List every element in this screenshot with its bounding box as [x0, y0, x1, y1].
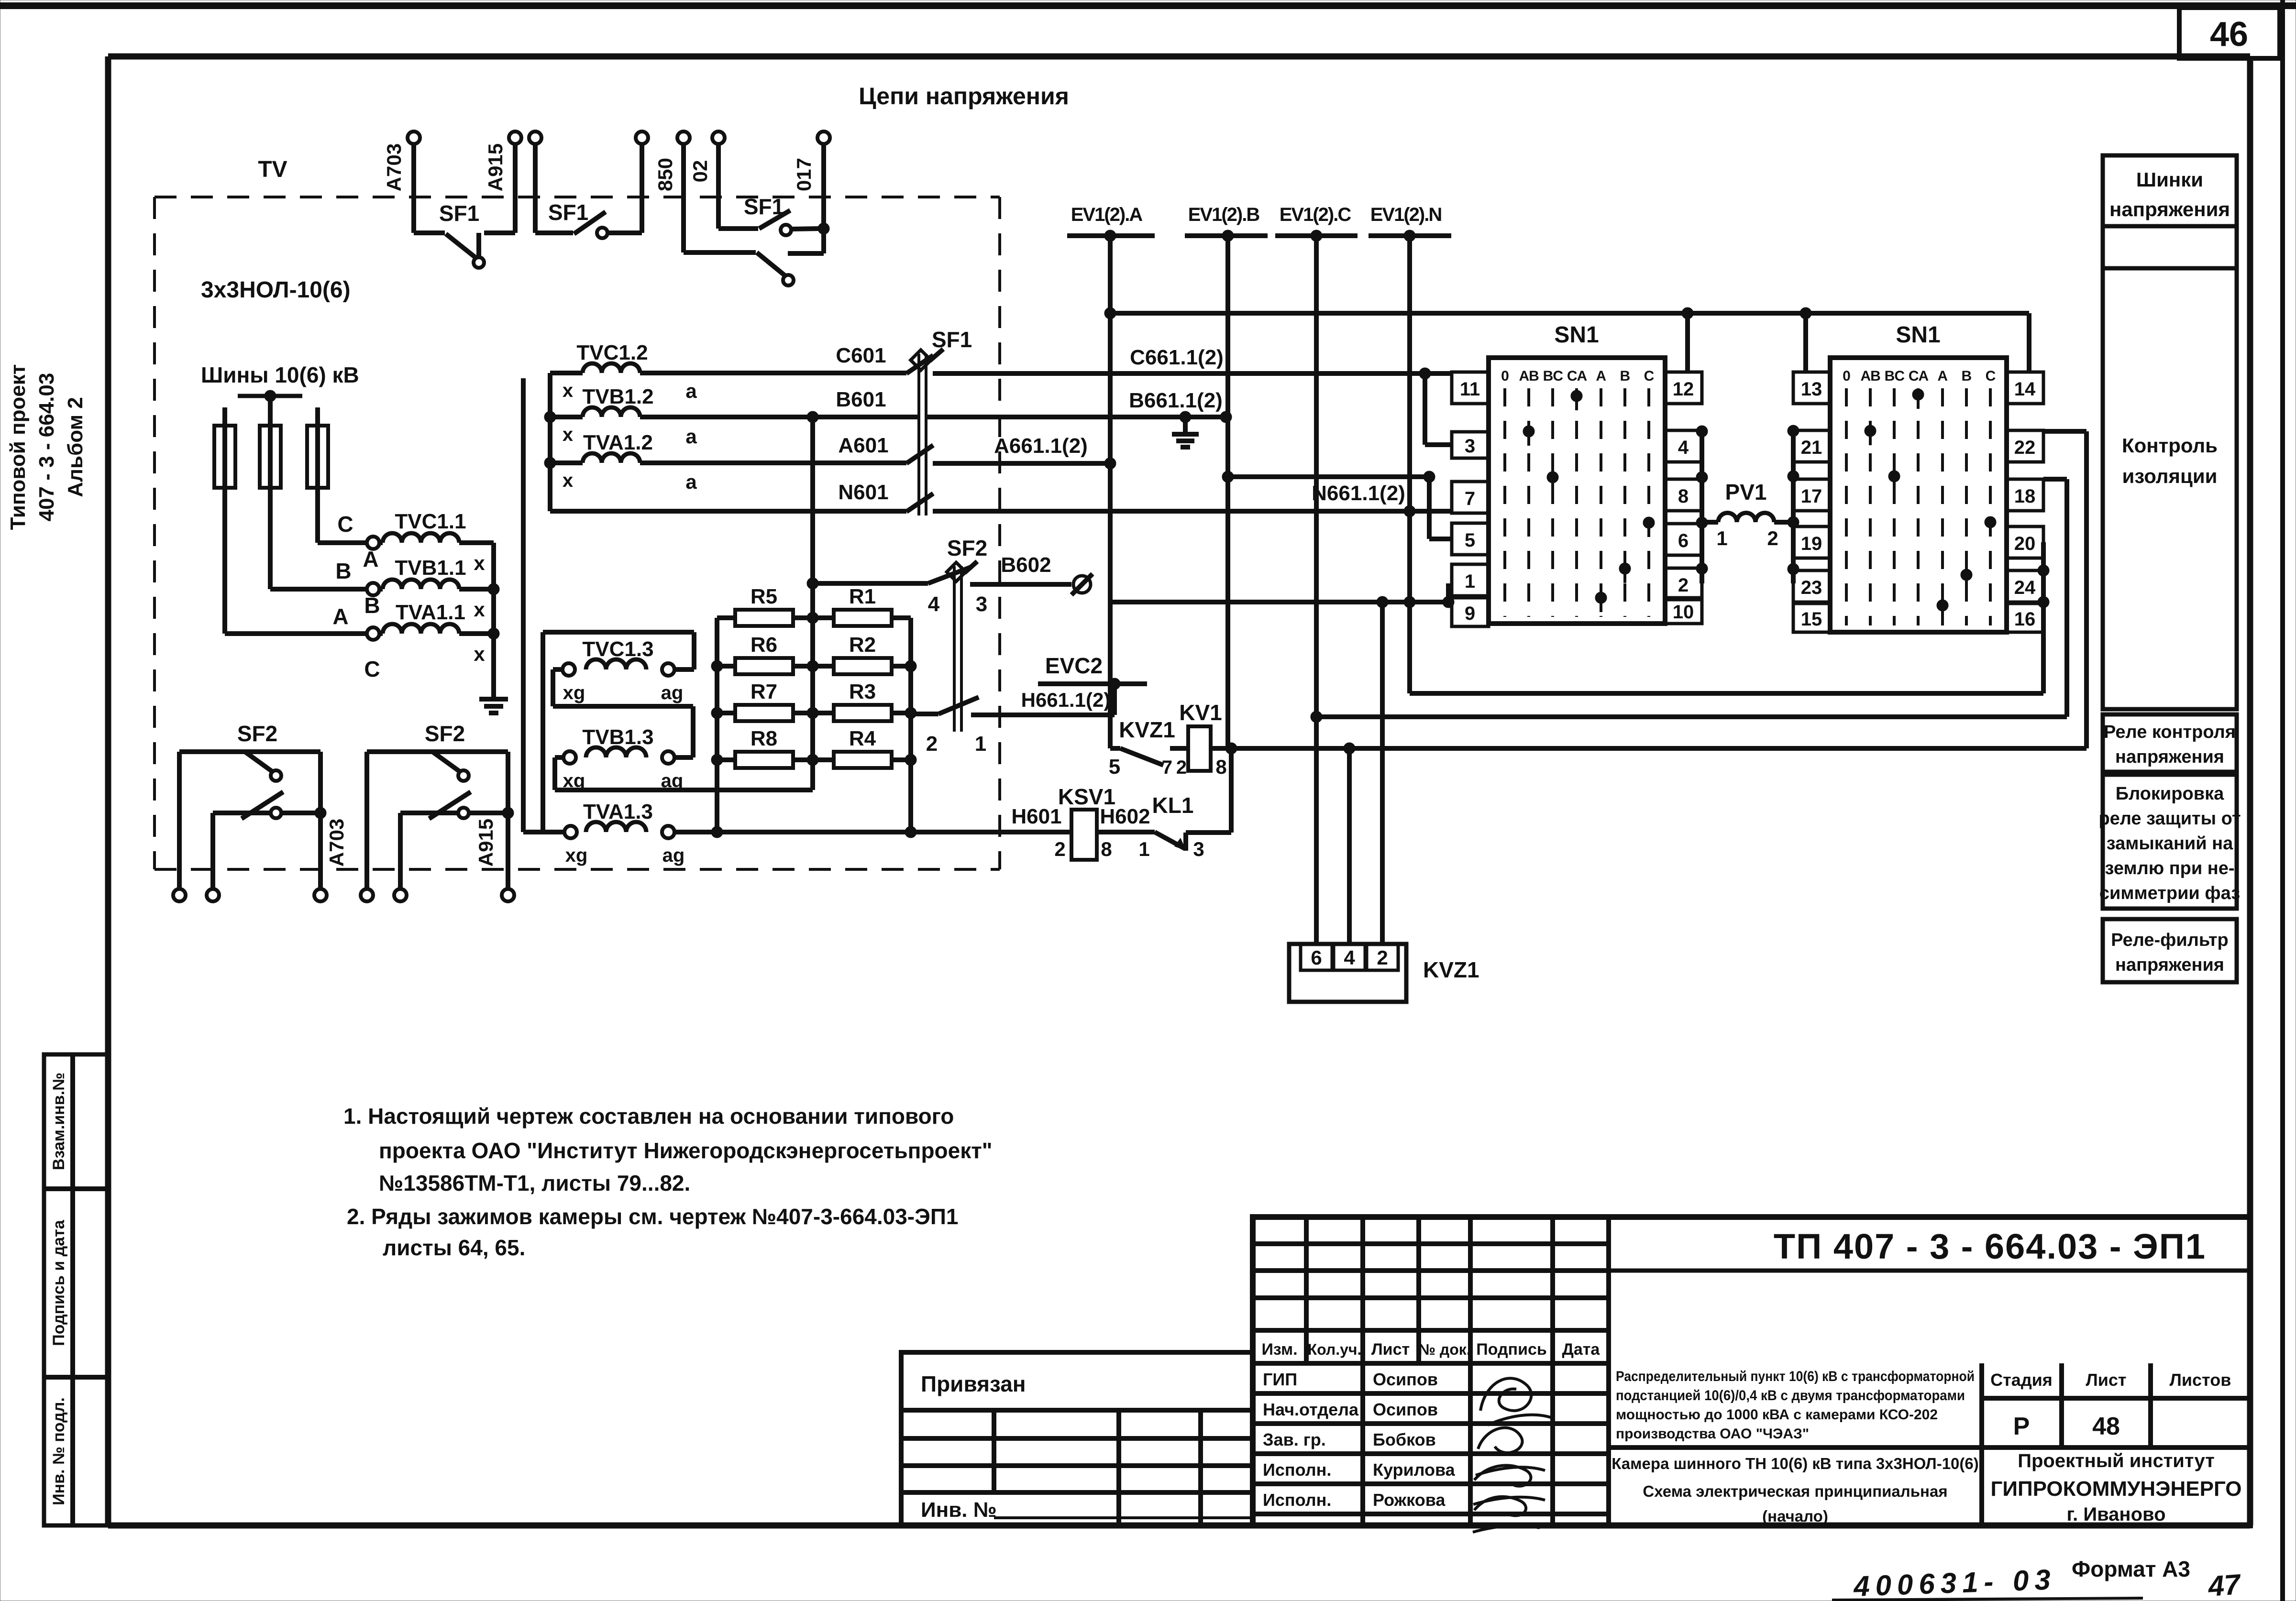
- svg-text:9: 9: [1465, 603, 1475, 624]
- winding TVA1.2: [550, 431, 653, 491]
- SN1 pin box 14: [2007, 372, 2043, 404]
- svg-text:A: A: [363, 547, 378, 571]
- wire to pin 12: [1685, 313, 1690, 372]
- wire EV1.B vertical: [1222, 236, 1234, 748]
- svg-text:Камера шинного ТН 10(6) кВ тип: Камера шинного ТН 10(6) кВ типа 3х3НОЛ-1…: [1612, 1455, 1979, 1472]
- winding TVC1.1: [318, 510, 494, 549]
- wire KVZ1 pin4 vertical: [1347, 748, 1352, 944]
- svg-text:A661.1(2): A661.1(2): [994, 434, 1088, 458]
- svg-text:C: C: [337, 512, 353, 537]
- SN1 pin box 11: [1452, 372, 1489, 404]
- signatures: [1473, 1378, 1552, 1532]
- svg-text:N601: N601: [838, 481, 888, 504]
- svg-text:SF1: SF1: [744, 194, 784, 219]
- terminal box KVZ1: [1289, 944, 1406, 1002]
- svg-text:A915: A915: [484, 143, 507, 191]
- winding TVA1.3: [543, 632, 684, 866]
- resistor network right bus: [905, 618, 916, 838]
- right column box Контроль изоляции: [2103, 268, 2237, 709]
- resistor network left bus: [711, 618, 723, 838]
- SN1 pin box 13: [1793, 372, 1830, 404]
- SF1 blade A601: [906, 445, 933, 463]
- SN1 pin box 7: [1452, 482, 1489, 513]
- winding TVB1.3: [555, 706, 813, 791]
- svg-text:C: C: [1644, 368, 1654, 384]
- svg-text:TVA1.1: TVA1.1: [396, 601, 465, 624]
- title block outline: [1253, 1217, 2250, 1525]
- svg-text:Схема электрическая принципиал: Схема электрическая принципиальная: [1643, 1482, 1947, 1500]
- svg-text:Инв. № подл.: Инв. № подл.: [50, 1397, 68, 1505]
- svg-text:Листов: Листов: [2170, 1370, 2231, 1390]
- svg-text:R2: R2: [849, 633, 876, 657]
- svg-text:SF1: SF1: [548, 200, 588, 225]
- svg-text:TV: TV: [258, 157, 287, 182]
- svg-text:ag: ag: [661, 682, 684, 703]
- svg-text:5: 5: [1465, 530, 1475, 551]
- svg-text:B602: B602: [1001, 553, 1051, 577]
- svg-text:1. Настоящий чертеж составлен: 1. Настоящий чертеж составлен на основан…: [343, 1104, 954, 1129]
- svg-text:C: C: [364, 657, 380, 681]
- switch SF2 no.2: [361, 721, 514, 901]
- node EV1(2).B: [1185, 204, 1268, 241]
- fuse FU1 (phase A): [214, 407, 235, 634]
- svg-text:H661.1(2): H661.1(2): [1021, 689, 1111, 711]
- svg-text:400631- 03: 400631- 03: [1853, 1563, 2057, 1601]
- svg-text:6: 6: [1678, 530, 1689, 551]
- svg-text:R6: R6: [751, 633, 777, 657]
- svg-text:x: x: [474, 552, 485, 574]
- svg-text:SF1: SF1: [932, 327, 972, 352]
- SN1 pin box 20: [2007, 526, 2043, 558]
- SN1 pin box 5: [1452, 523, 1489, 555]
- svg-text:Контроль: Контроль: [2122, 434, 2218, 457]
- svg-text:10: 10: [1673, 602, 1694, 623]
- svg-text:TVA1.2: TVA1.2: [583, 431, 653, 454]
- svg-text:A601: A601: [838, 434, 888, 457]
- svg-text:H601: H601: [1011, 805, 1061, 828]
- svg-text:Взам.инв.№: Взам.инв.№: [50, 1073, 68, 1170]
- SN1 dashed contact columns: [1846, 388, 1990, 625]
- svg-text:Изм.: Изм.: [1261, 1340, 1297, 1359]
- wire KL1 to KV row: [1229, 748, 1234, 833]
- svg-text:KVZ1: KVZ1: [1423, 957, 1479, 982]
- svg-text:a: a: [685, 425, 697, 448]
- svg-text:Курилова: Курилова: [1373, 1460, 1456, 1480]
- svg-text:проекта ОАО "Институт Нижегоро: проекта ОАО "Институт Нижегородскэнергос…: [379, 1138, 993, 1163]
- svg-text:производства ОАО "ЧЭАЗ": производства ОАО "ЧЭАЗ": [1616, 1426, 1809, 1442]
- svg-text:C601: C601: [836, 344, 886, 367]
- SN1 contact position dots: [1523, 390, 1655, 612]
- resistor R3: [813, 680, 911, 721]
- svg-text:2: 2: [1054, 838, 1065, 860]
- switch SF1 no.1: [408, 132, 521, 268]
- svg-text:(начало): (начало): [1762, 1507, 1828, 1525]
- svg-text:№ док.: № док.: [1418, 1341, 1470, 1358]
- wire EV1.C vertical: [1311, 236, 1322, 944]
- svg-text:6: 6: [1311, 946, 1322, 969]
- svg-text:R1: R1: [849, 585, 876, 608]
- svg-text:симметрии фаз: симметрии фаз: [2099, 883, 2240, 903]
- wire KV row to pin 22: [2043, 431, 2086, 748]
- SN1 pin box 21: [1793, 430, 1830, 462]
- switch SN1 block outline: [1830, 322, 2007, 632]
- svg-text:Формат А3: Формат А3: [2072, 1557, 2190, 1581]
- SF1 blade N601: [906, 493, 933, 512]
- svg-text:TVA1.3: TVA1.3: [583, 800, 653, 823]
- switch SF2 no.1: [173, 721, 327, 901]
- svg-text:22: 22: [2014, 437, 2036, 458]
- svg-text:Инв. №: Инв. №: [921, 1498, 997, 1522]
- right column box Реле-фильтр напряжения: [2103, 919, 2237, 982]
- svg-text:H602: H602: [1100, 805, 1150, 828]
- svg-text:листы 64, 65.: листы 64, 65.: [383, 1235, 525, 1260]
- wire H602: [1097, 805, 1155, 832]
- svg-text:SF2: SF2: [425, 721, 465, 746]
- svg-text:017: 017: [793, 158, 815, 191]
- SN1 dashed contact columns: [1505, 388, 1649, 617]
- SN1 pin box 10: [1665, 598, 1702, 624]
- svg-text:3: 3: [976, 592, 987, 616]
- svg-text:ag: ag: [661, 770, 684, 791]
- wire B661.1(2) row: [926, 389, 1232, 423]
- svg-text:TVC1.2: TVC1.2: [576, 341, 648, 364]
- contact KL1: [1152, 793, 1231, 851]
- svg-text:02: 02: [689, 160, 711, 183]
- drawing name: [1612, 1455, 1979, 1525]
- svg-text:напряжения: напряжения: [2109, 198, 2230, 220]
- svg-text:48: 48: [2092, 1413, 2120, 1440]
- svg-text:xg: xg: [565, 845, 588, 866]
- svg-text:x: x: [563, 380, 573, 401]
- svg-text:Нач.отдела: Нач.отдела: [1263, 1400, 1359, 1419]
- svg-text:3: 3: [1193, 838, 1204, 860]
- switch SN1 block outline: [1489, 322, 1665, 624]
- svg-text:46: 46: [2210, 15, 2248, 54]
- svg-text:Типовой проект: Типовой проект: [6, 364, 30, 530]
- svg-text:B: B: [1620, 368, 1630, 384]
- node EV1(2).A: [1067, 204, 1155, 241]
- svg-text:R7: R7: [751, 680, 777, 703]
- svg-text:напряжения: напряжения: [2115, 747, 2224, 767]
- secondary left bus: [544, 373, 556, 511]
- SN1 pin box 16: [2007, 603, 2043, 632]
- svg-text:KVZ1: KVZ1: [1119, 717, 1175, 742]
- SN1 pin box 4: [1665, 430, 1702, 462]
- svg-text:20: 20: [2014, 533, 2036, 554]
- notes text: [343, 1104, 993, 1260]
- svg-text:2: 2: [1767, 527, 1778, 549]
- breaker SF2 (2-pole): [947, 536, 987, 732]
- svg-text:Кол.уч.: Кол.уч.: [1308, 1341, 1362, 1358]
- wire EV1.N to pins 20-24: [1410, 542, 2049, 693]
- SF1 blade C601: [906, 355, 933, 373]
- svg-text:замыканий на: замыканий на: [2107, 833, 2233, 854]
- svg-text:x: x: [563, 424, 573, 445]
- winding TVA1.1: [225, 601, 494, 640]
- svg-text:№13586ТМ-Т1, листы 79...82.: №13586ТМ-Т1, листы 79...82.: [379, 1171, 690, 1195]
- svg-text:TVB1.2: TVB1.2: [582, 385, 653, 408]
- svg-text:0: 0: [1843, 368, 1850, 384]
- svg-text:0: 0: [1501, 368, 1509, 384]
- winding TVC1.3: [543, 632, 694, 706]
- SN1 pin box 2: [1665, 568, 1702, 600]
- svg-text:AB: AB: [1519, 368, 1539, 384]
- svg-text:изоляции: изоляции: [2122, 465, 2218, 487]
- wire H601 row: [523, 805, 1071, 832]
- svg-text:Лист: Лист: [1371, 1340, 1410, 1359]
- svg-text:Исполн.: Исполн.: [1263, 1460, 1331, 1480]
- svg-text:a: a: [685, 380, 697, 402]
- bus 10(6) kV: [238, 390, 302, 402]
- svg-text:A: A: [1596, 368, 1606, 384]
- svg-text:8: 8: [1101, 838, 1112, 860]
- svg-text:Р: Р: [2013, 1413, 2030, 1440]
- wire EV1.N vertical: [1404, 236, 1415, 693]
- svg-text:xg: xg: [563, 682, 585, 703]
- svg-text:C661.1(2): C661.1(2): [1130, 346, 1224, 369]
- svg-text:C: C: [1986, 368, 1996, 384]
- wire N601 row left: [550, 481, 906, 511]
- SN1 block2 left tie bus: [1788, 425, 1799, 583]
- svg-text:x: x: [563, 470, 573, 491]
- svg-text:3: 3: [1465, 436, 1475, 457]
- ground symbol primary: [479, 699, 508, 713]
- wire to pin 1: [1446, 583, 1451, 602]
- svg-text:Дата: Дата: [1562, 1340, 1601, 1359]
- svg-text:13: 13: [1801, 379, 1822, 400]
- node EV1(2).N: [1369, 204, 1451, 241]
- fuse FU3 (phase C): [307, 407, 328, 543]
- svg-text:11: 11: [1460, 379, 1480, 400]
- svg-text:4: 4: [1344, 946, 1355, 969]
- wire C to pin3 branch: [1425, 373, 1452, 445]
- svg-text:Распределительный пункт 10(6): Распределительный пункт 10(6) кВ с транс…: [1616, 1369, 1975, 1384]
- svg-text:Цепи напряжения: Цепи напряжения: [859, 83, 1069, 110]
- svg-text:17: 17: [1801, 486, 1822, 507]
- svg-text:Зав. гр.: Зав. гр.: [1263, 1430, 1326, 1449]
- svg-text:A703: A703: [383, 143, 405, 191]
- svg-text:407 - 3 - 664.03: 407 - 3 - 664.03: [35, 373, 58, 522]
- svg-text:г. Иваново: г. Иваново: [2066, 1504, 2165, 1525]
- svg-text:a: a: [685, 471, 697, 493]
- primary neutral bus wire: [488, 543, 499, 699]
- svg-text:B: B: [335, 559, 351, 583]
- svg-text:2. Ряды зажимов камеры см. че: 2. Ряды зажимов камеры см. чертеж №407-3…: [347, 1204, 959, 1229]
- SN1 column header labels: [1501, 368, 1654, 384]
- svg-text:1: 1: [1465, 571, 1475, 592]
- SN1 pin box 1: [1452, 564, 1489, 596]
- svg-text:SF2: SF2: [947, 536, 987, 560]
- svg-text:EV1(2).A: EV1(2).A: [1071, 204, 1143, 225]
- resistor R6: [717, 633, 813, 674]
- SN1 block1 right tie bus: [1696, 426, 1708, 583]
- right column box Реле контроля напряжения: [2103, 714, 2237, 772]
- svg-text:CA: CA: [1567, 368, 1587, 384]
- sheet top edge line: [0, 2, 2296, 9]
- svg-text:TVC1.3: TVC1.3: [582, 637, 653, 661]
- svg-text:2: 2: [926, 732, 938, 756]
- svg-text:Рожкова: Рожкова: [1373, 1490, 1446, 1510]
- svg-text:19: 19: [1801, 533, 1822, 554]
- switch SF1 no.3: [677, 132, 830, 285]
- wire B601 row: [640, 388, 919, 423]
- svg-text:BC: BC: [1885, 368, 1905, 384]
- svg-text:Шинки: Шинки: [2136, 168, 2203, 191]
- svg-text:TVB1.1: TVB1.1: [395, 556, 466, 580]
- TV unit dashed boundary box: [155, 197, 1000, 869]
- svg-text:A: A: [332, 604, 348, 629]
- winding TVB1.2: [550, 385, 654, 445]
- table Привязан: [901, 1352, 1253, 1525]
- SN1 pin box 15: [1793, 603, 1830, 632]
- wire top distribution line: [1110, 307, 2029, 319]
- svg-text:Бобков: Бобков: [1373, 1430, 1436, 1449]
- svg-text:SN1: SN1: [1896, 322, 1940, 348]
- SN1 contact position dots: [1865, 389, 1996, 620]
- svg-text:Шины 10(6) кВ: Шины 10(6) кВ: [201, 362, 359, 387]
- svg-text:Реле-фильтр: Реле-фильтр: [2111, 930, 2229, 950]
- svg-text:x: x: [474, 643, 485, 665]
- svg-text:Лист: Лист: [2086, 1370, 2126, 1390]
- svg-text:TVC1.1: TVC1.1: [395, 510, 466, 533]
- ground symbol B661: [1172, 417, 1199, 447]
- svg-text:4: 4: [1678, 437, 1689, 458]
- svg-text:3х3НОЛ-10(6): 3х3НОЛ-10(6): [201, 277, 351, 303]
- svg-text:Исполн.: Исполн.: [1263, 1490, 1331, 1510]
- svg-text:7: 7: [1162, 757, 1172, 778]
- winding TVC1.2: [550, 341, 648, 401]
- svg-text:21: 21: [1801, 437, 1822, 458]
- svg-text:x: x: [474, 598, 485, 621]
- svg-text:ГИПРОКОММУНЭНЕРГО: ГИПРОКОММУНЭНЕРГО: [1990, 1477, 2241, 1501]
- wire N661 lower row: [1110, 596, 1454, 608]
- SN1 pin box 23: [1793, 570, 1830, 602]
- svg-text:BC: BC: [1543, 368, 1563, 384]
- svg-text:ГИП: ГИП: [1263, 1370, 1297, 1389]
- svg-text:напряжения: напряжения: [2115, 955, 2224, 975]
- resistor R7: [717, 680, 813, 721]
- svg-text:R4: R4: [849, 727, 876, 750]
- svg-text:16: 16: [2014, 609, 2036, 630]
- svg-text:Альбом 2: Альбом 2: [64, 397, 87, 497]
- svg-text:EV1(2).B: EV1(2).B: [1188, 204, 1260, 225]
- wire H661 pole: [911, 689, 1115, 715]
- svg-text:R5: R5: [751, 585, 777, 608]
- svg-text:SN1: SN1: [1554, 322, 1599, 348]
- svg-text:KL1: KL1: [1152, 793, 1194, 818]
- wire A661.1(2) row: [933, 434, 1116, 469]
- transducer PV1: [1702, 480, 1793, 549]
- SN1 pin box 19: [1793, 526, 1830, 558]
- contact KVZ1: [1110, 717, 1175, 765]
- svg-text:8: 8: [1215, 756, 1226, 778]
- svg-text:Привязан: Привязан: [921, 1371, 1026, 1396]
- svg-text:KV1: KV1: [1179, 700, 1222, 725]
- resistor R8: [717, 727, 813, 768]
- svg-text:1: 1: [1138, 838, 1149, 860]
- svg-text:1: 1: [1716, 527, 1727, 549]
- svg-text:B601: B601: [836, 388, 886, 411]
- svg-text:CA: CA: [1909, 368, 1929, 384]
- svg-text:23: 23: [1801, 577, 1822, 598]
- SN1 column header labels: [1843, 368, 1996, 384]
- staff rows: [1253, 1363, 1609, 1525]
- document number ТП 407-3-664.03-ЭП1: [1609, 1227, 2250, 1271]
- svg-text:SF1: SF1: [439, 201, 479, 226]
- wire open-delta return vertical: [521, 378, 526, 832]
- svg-text:Реле контроля: Реле контроля: [2104, 722, 2236, 742]
- svg-text:5: 5: [1109, 755, 1120, 779]
- wire to pin 14: [2027, 313, 2031, 372]
- svg-text:47: 47: [2207, 1568, 2242, 1601]
- relay coil KSV1: [1058, 784, 1115, 860]
- svg-text:Осипов: Осипов: [1373, 1400, 1438, 1419]
- winding TVB1.1: [270, 556, 494, 595]
- svg-text:N661.1(2): N661.1(2): [1312, 482, 1405, 505]
- svg-text:EVC2: EVC2: [1045, 653, 1103, 678]
- SN1 pin box 12: [1665, 372, 1702, 404]
- svg-text:Стадия: Стадия: [1990, 1370, 2053, 1390]
- SN1 pin box 3: [1452, 432, 1489, 458]
- svg-text:2: 2: [1377, 946, 1388, 969]
- svg-text:реле защиты от: реле защиты от: [2098, 809, 2241, 829]
- resistor R5: [717, 585, 813, 626]
- SN1 pin box 22: [2007, 430, 2043, 462]
- svg-text:R8: R8: [751, 727, 777, 750]
- wire N601-N661 row: [933, 482, 1452, 517]
- resistor R2: [813, 633, 911, 674]
- page number box 46: [2179, 8, 2280, 58]
- SN1 pin box 9: [1452, 598, 1489, 626]
- resistor R4: [813, 727, 911, 768]
- SN1 pin box 8: [1665, 479, 1702, 511]
- svg-text:AB: AB: [1860, 368, 1880, 384]
- svg-text:Подпись и дата: Подпись и дата: [50, 1219, 68, 1346]
- symbol open end B602: [1071, 574, 1093, 595]
- svg-text:xg: xg: [563, 770, 585, 791]
- wire C601 row: [640, 344, 906, 373]
- svg-text:14: 14: [2014, 379, 2036, 400]
- svg-text:B661.1(2): B661.1(2): [1129, 389, 1223, 412]
- svg-text:TVB1.3: TVB1.3: [582, 725, 653, 749]
- relay coil KV1: [1170, 700, 1222, 771]
- svg-text:подстанцией 10(6)/0,4 кВ с дву: подстанцией 10(6)/0,4 кВ с двумя трансфо…: [1616, 1388, 1965, 1404]
- svg-text:850: 850: [654, 158, 676, 191]
- wire to pin 13: [1803, 313, 1808, 372]
- svg-text:мощностью до 1000 кВА с камера: мощностью до 1000 кВА с камерами КСО-202: [1616, 1407, 1938, 1423]
- svg-text:B: B: [1961, 368, 1971, 384]
- wire C661.1(2) row: [933, 346, 1452, 379]
- svg-text:1: 1: [975, 732, 986, 756]
- switch SF1 no.2: [529, 132, 648, 238]
- svg-text:B: B: [364, 593, 380, 618]
- wire B602 pole: [813, 553, 1071, 584]
- SN1 pin box 18: [2007, 479, 2043, 511]
- svg-text:18: 18: [2014, 486, 2036, 507]
- sheet right edge line: [2280, 0, 2285, 1601]
- svg-text:8: 8: [1678, 486, 1689, 507]
- svg-text:2: 2: [1678, 575, 1689, 596]
- svg-text:Подпись: Подпись: [1476, 1340, 1547, 1359]
- handwritten archive number: [1832, 1563, 2242, 1601]
- right column box Блокировка: [2098, 775, 2241, 909]
- svg-text:2: 2: [1176, 757, 1187, 778]
- SN1 pin box 24: [2007, 570, 2043, 602]
- svg-text:A915: A915: [475, 819, 497, 866]
- institute name: [1990, 1450, 2241, 1525]
- svg-text:ag: ag: [662, 845, 685, 866]
- svg-text:12: 12: [1673, 379, 1694, 400]
